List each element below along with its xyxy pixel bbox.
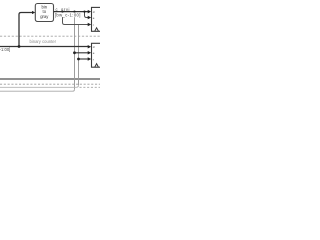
dashed boundary binary counter top [0,35,100,37]
branch wire to gray register input 3 [63,12,89,25]
wire clock bus bottom [0,78,100,80]
svg-text:-1:00]: -1:00] [0,47,10,52]
binary register flip-flop bottom right [92,43,103,67]
wire net c_gryi [54,11,89,13]
wire bus to bin2gray input [19,13,32,47]
junction dot net B [77,58,80,61]
arrowhead binary register input 2 [88,51,92,55]
wire gray feedback net B vertical and bend left [78,25,80,86]
module U1 bin to gray [35,4,53,22]
dashed boundary lower 2 [80,86,101,88]
svg-text:c_gryi: c_gryi [56,7,70,12]
arrowhead binary register input 3 [88,57,92,61]
junction dot c_gryi tap 4 [83,11,85,13]
label halo [54,13,82,18]
junction dot net A [73,51,76,54]
branch wire to gray register input 2 [85,12,89,18]
junction dot bus tap [18,45,21,48]
svg-text:[bw_c-1:00]: [bw_c-1:00] [55,12,81,17]
wire cnt_bin bus [0,46,88,48]
gray register flip-flop top right [92,7,103,31]
wire branch to binary register input 2 [75,52,89,54]
arrowhead into bin2gray [32,11,35,14]
junction dot c_gryi tap 1 [61,11,63,13]
svg-text:r: r [93,57,94,61]
svg-text:r: r [93,23,94,27]
svg-text:binary counter: binary counter [30,39,57,44]
dashed boundary lower 1 [0,83,100,85]
wire branch to binary register input 3 [79,58,89,60]
arrowhead binary register input 1 [88,45,92,49]
arrowhead gray register input 3 [88,23,92,27]
arrowhead c_gryi into gray register d [88,10,92,14]
clock triangle gray register [95,28,99,32]
clock triangle binary register [95,64,99,67]
junction dot c_gryi tap 2 [73,11,75,13]
svg-text:gray: gray [40,14,49,19]
arrowhead gray register input 2 [88,16,92,20]
wire gray feedback net A vertical and bend left [74,12,76,90]
